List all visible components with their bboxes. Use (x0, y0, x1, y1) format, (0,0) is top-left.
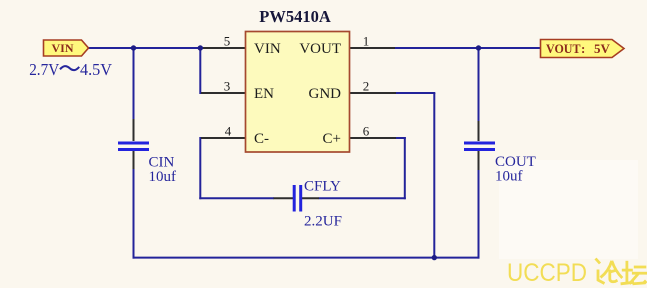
wire C- vertical (199, 137, 201, 199)
node junction VOUT/COUT (476, 45, 481, 50)
wire C+ vertical (404, 137, 406, 199)
svg-text:4: 4 (225, 124, 232, 139)
svg-text:VIN: VIN (254, 41, 281, 57)
op-amp U1 pin 5 stub (203, 47, 246, 49)
capacitor COUT pin upper (478, 121, 480, 141)
wire VOUT to flag (395, 47, 541, 49)
svg-text:6: 6 (363, 124, 370, 139)
svg-text:10uf: 10uf (149, 169, 177, 185)
capacitor CFLY plates (293, 185, 296, 212)
watermark glyph LUN (596, 259, 623, 284)
power port VOUT flag (541, 40, 625, 58)
node junction VIN/CIN (131, 45, 136, 50)
pin 4 stub (201, 137, 246, 139)
svg-text:C-: C- (254, 131, 269, 147)
pin 3 stub (201, 92, 246, 94)
svg-text:4.5V: 4.5V (80, 60, 113, 79)
wire GND vertical (433, 93, 435, 259)
svg-text:3: 3 (224, 79, 231, 94)
node junction VIN/EN (198, 45, 203, 50)
pin 1 stub (350, 47, 395, 49)
svg-text:GND: GND (309, 86, 342, 102)
svg-text:1: 1 (363, 34, 370, 49)
svg-text:2: 2 (363, 79, 370, 94)
wire CIN branch lower (133, 168, 135, 259)
svg-text:VIN: VIN (51, 41, 73, 55)
svg-text:2.7V: 2.7V (29, 60, 60, 79)
svg-text:EN: EN (254, 86, 274, 102)
wire GND horizontal (396, 92, 435, 94)
svg-text:PW5410A: PW5410A (259, 7, 331, 26)
capacitor CIN pin upper (133, 119, 135, 141)
wire COUT branch lower (478, 169, 480, 259)
pin 2 stub (350, 92, 396, 94)
svg-text:10uf: 10uf (495, 169, 523, 185)
wire C- to CFLY left (199, 197, 274, 199)
wire CIN branch upper (133, 48, 135, 120)
wire COUT branch upper (478, 48, 480, 122)
capacitor COUT plates (464, 142, 495, 145)
capacitor CFLY pin right (301, 197, 320, 199)
capacitor CIN pin lower (133, 150, 135, 169)
node junction GND/rail (432, 255, 437, 260)
svg-text:5: 5 (224, 34, 231, 49)
pin 6 stub (350, 137, 396, 139)
svg-text:VOUT:5V: VOUT:5V (546, 41, 611, 56)
wire pin6 horizontal (396, 137, 406, 139)
svg-text:UCCPD: UCCPD (507, 259, 587, 287)
svg-text:CFLY: CFLY (304, 179, 341, 195)
power port VIN flag (44, 40, 89, 56)
svg-text:C+: C+ (323, 131, 341, 147)
capacitor COUT pin lower (478, 150, 480, 170)
wire VIN flag to pin 5 (88, 47, 203, 49)
wire EN branch vertical (199, 48, 201, 94)
svg-text:2.2UF: 2.2UF (304, 214, 342, 230)
capacitor CFLY pin left (274, 197, 294, 199)
IC U1 PW5410A body (246, 32, 350, 153)
svg-text:VOUT: VOUT (299, 41, 341, 57)
capacitor CIN plates (118, 142, 149, 145)
wire CFLY right to C+ vertical (319, 197, 406, 199)
wire bottom rail (133, 257, 480, 259)
watermark glyph TAN (621, 261, 647, 284)
